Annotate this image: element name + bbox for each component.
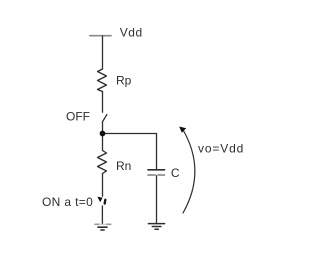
svg-text:ON a t=0: ON a t=0 (42, 195, 93, 209)
svg-text:vo=Vdd: vo=Vdd (198, 141, 244, 155)
svg-text:Rp: Rp (116, 74, 132, 88)
svg-text:Rn: Rn (116, 159, 131, 173)
svg-text:Vdd: Vdd (120, 25, 143, 39)
svg-text:C: C (171, 166, 180, 180)
svg-text:OFF: OFF (66, 110, 90, 124)
